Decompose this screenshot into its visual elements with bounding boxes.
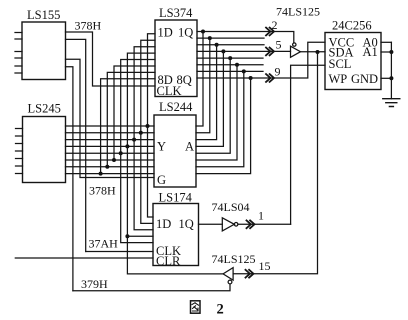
junction dot 7Q bbox=[242, 69, 246, 73]
wire LS374 D2 staircase bbox=[141, 40, 155, 133]
svg-text:379H: 379H bbox=[81, 277, 108, 291]
hex flip-flop U5 LS174 bbox=[153, 204, 199, 266]
wire LS374 D8 staircase bbox=[101, 79, 155, 174]
svg-text:2: 2 bbox=[217, 302, 224, 318]
svg-text:378H: 378H bbox=[89, 184, 116, 198]
wire data bus line 4 bbox=[66, 145, 155, 147]
inverter U8 74LS04 bbox=[222, 218, 234, 231]
wire LS374 8Q line to VCC bbox=[197, 42, 325, 78]
wire 7Q to LS244 A7 bbox=[196, 71, 244, 166]
svg-text:WP: WP bbox=[329, 72, 348, 86]
wire 2Q to LS244 A2 bbox=[196, 38, 210, 133]
junction dot 3Q bbox=[215, 43, 219, 47]
wire LS155 out2 37AH vertical bbox=[66, 39, 86, 251]
wire LS374 D5 staircase bbox=[121, 60, 155, 154]
wire 6Q to LS244 A6 bbox=[196, 65, 237, 160]
junction dot bus7-D7 bbox=[105, 165, 109, 169]
svg-text:A1: A1 bbox=[363, 45, 378, 59]
control bubble U9 bbox=[228, 280, 232, 284]
wire SCL net bbox=[291, 65, 325, 224]
junction dot GND bbox=[389, 76, 393, 80]
eeprom U6 24C256 bbox=[325, 33, 381, 90]
wire LS374 1Q line bbox=[197, 32, 294, 44]
wire SDA vertical to 15 line bbox=[233, 52, 317, 274]
wire 24C256 GND to ground rail bbox=[381, 77, 391, 79]
svg-text:G: G bbox=[157, 173, 166, 187]
junction dot 5Q bbox=[228, 56, 232, 60]
svg-text:LS244: LS244 bbox=[159, 100, 193, 114]
wire LS374 D4 staircase bbox=[127, 53, 155, 146]
wire LS155 out3 378H-read to LS244 G bbox=[66, 59, 155, 177]
junction dot LS174 D4 readback bbox=[125, 234, 129, 238]
wire LS374 2Q line bbox=[197, 37, 264, 39]
junction dot bus6-D6 bbox=[112, 158, 116, 162]
junction dot 4Q bbox=[221, 49, 225, 53]
wire LS374 6Q line bbox=[197, 64, 263, 66]
wire LS174 input2 bbox=[141, 133, 153, 224]
wire LS174 CLK 37AH bbox=[86, 251, 153, 253]
chevron pin15 bbox=[246, 270, 254, 278]
svg-text:9: 9 bbox=[275, 65, 281, 79]
svg-text:1D: 1D bbox=[156, 217, 171, 231]
junction dot bus8-D8 bbox=[99, 172, 103, 176]
ground symbol bbox=[383, 99, 400, 107]
wire 5Q to LS244 A5 bbox=[196, 58, 230, 153]
latch U3 LS374 bbox=[155, 20, 197, 97]
inverter bubble U8 bbox=[234, 223, 238, 227]
wire LS174 input5 bbox=[121, 153, 153, 242]
wire LS374 D6 staircase bbox=[114, 66, 155, 160]
junction dot 8Q bbox=[249, 76, 253, 80]
svg-text:LS174: LS174 bbox=[159, 191, 193, 205]
svg-text:SCL: SCL bbox=[329, 57, 352, 71]
chevron pin2 bbox=[266, 28, 274, 36]
junction dot bus1-D1 bbox=[146, 124, 150, 128]
svg-text:CLR: CLR bbox=[156, 254, 181, 268]
wire LS155 out1 378H to LS374 CLK bbox=[66, 32, 156, 86]
wire ground rail bbox=[390, 42, 392, 98]
wire data bus line 8 bbox=[66, 173, 155, 175]
LS155 input pin stubs bbox=[15, 33, 22, 74]
wire LS374 D7 staircase bbox=[107, 72, 155, 166]
svg-text:LS374: LS374 bbox=[159, 6, 193, 20]
wire 1Q to LS244 A1 bbox=[196, 32, 203, 127]
wire buffer U9 output to LS174 D4 bbox=[127, 236, 223, 274]
tri-state buffer U9 74LS125 (bottom, read) bbox=[223, 268, 233, 281]
wire 74LS04 output line bbox=[238, 223, 291, 225]
decoder U1 LS155 bbox=[22, 22, 66, 80]
svg-text:15: 15 bbox=[259, 259, 271, 273]
junction dot 1Q bbox=[201, 30, 205, 34]
tri-state buffer U7 74LS125 (top) bbox=[291, 46, 301, 57]
svg-text:74LS04: 74LS04 bbox=[212, 200, 250, 214]
svg-text:GND: GND bbox=[351, 72, 378, 86]
svg-text:LS155: LS155 bbox=[27, 8, 60, 22]
chevron pin1 bbox=[247, 220, 255, 228]
LS245 input pin stubs bbox=[16, 129, 23, 174]
wire data bus line 2 bbox=[66, 132, 155, 134]
junction dot A1 bbox=[389, 50, 393, 54]
svg-text:CLK: CLK bbox=[157, 84, 182, 98]
junction dot 6Q bbox=[235, 63, 239, 67]
wire 8Q to LS244 A8 bbox=[196, 78, 251, 174]
junction dot bus3-D3 bbox=[132, 138, 136, 142]
svg-text:74LS125: 74LS125 bbox=[212, 252, 256, 266]
bus transceiver U2 LS245 bbox=[23, 117, 66, 183]
junction dot 2Q bbox=[208, 36, 212, 40]
wire buffer U7 output to SDA bbox=[301, 51, 326, 53]
junction dot bus5-D5 bbox=[119, 151, 123, 155]
wire data bus line 1 bbox=[66, 125, 155, 127]
wire LS174 input3 bbox=[134, 140, 153, 230]
svg-text:1: 1 bbox=[258, 209, 264, 223]
wire LS174 CLR bbox=[15, 257, 153, 259]
caption glyph 图 bbox=[191, 301, 201, 313]
svg-text:24C256: 24C256 bbox=[332, 19, 372, 33]
control bubble U7 bbox=[293, 43, 296, 46]
wire LS174 1Q to inverter bbox=[199, 223, 223, 225]
svg-text:1Q: 1Q bbox=[179, 217, 194, 231]
svg-text:1D: 1D bbox=[158, 26, 173, 40]
svg-text:5: 5 bbox=[276, 38, 282, 52]
wire LS374 D1 staircase bbox=[148, 34, 156, 126]
chevron pin9 bbox=[266, 74, 274, 82]
wire 24C256 A1 to ground rail bbox=[381, 51, 391, 53]
wire LS155 out4 379H vertical bbox=[66, 67, 73, 291]
wire data bus line 5 bbox=[66, 152, 155, 154]
wire LS374 3Q line bbox=[197, 44, 264, 46]
wire 379H control line bbox=[73, 284, 230, 291]
svg-text:Y: Y bbox=[157, 140, 166, 154]
svg-text:378H: 378H bbox=[75, 19, 102, 33]
svg-text:1Q: 1Q bbox=[178, 26, 193, 40]
junction dot bus2-D2 bbox=[139, 131, 143, 135]
svg-text:37AH: 37AH bbox=[89, 237, 119, 251]
wire data bus line 7 bbox=[66, 166, 155, 168]
svg-text:A: A bbox=[185, 140, 194, 154]
wire LS374 7Q line bbox=[197, 70, 263, 72]
wire 3Q to LS244 A3 bbox=[196, 45, 217, 140]
buffer U4 LS244 bbox=[154, 115, 196, 187]
wire data bus line 3 bbox=[66, 139, 155, 141]
wire LS174 input4 bbox=[127, 146, 153, 236]
svg-text:LS245: LS245 bbox=[28, 102, 61, 116]
wire LS374 5Q line bbox=[197, 57, 263, 59]
junction dot bus4-D4 bbox=[125, 144, 129, 148]
wire 4Q to LS244 A4 bbox=[196, 51, 223, 146]
wire LS374 4Q line to buffer input bbox=[197, 50, 291, 52]
chevron pin5 bbox=[266, 48, 274, 56]
junction node SDA bbox=[316, 50, 320, 54]
wire LS174 input1 bbox=[148, 126, 154, 217]
wire data bus line 6 bbox=[66, 159, 155, 161]
wire LS374 D3 staircase bbox=[134, 47, 155, 140]
wire 24C256 A0 to ground rail bbox=[381, 41, 391, 43]
svg-text:74LS125: 74LS125 bbox=[276, 5, 320, 19]
